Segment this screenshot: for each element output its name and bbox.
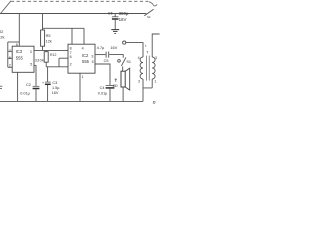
- wire R6 bottom lead: [45, 62, 47, 67]
- wire speaker to ground rail: [122, 87, 124, 101]
- svg-text:S2: S2: [147, 15, 151, 19]
- wire IC2 pins 6-2 bracket: [58, 58, 60, 67]
- wire IC1 pin6 stub: [8, 57, 12, 59]
- op-amp IC2 555 box: [68, 44, 95, 73]
- svg-text:0.01µ: 0.01µ: [98, 92, 108, 96]
- svg-text:C5: C5: [108, 11, 114, 16]
- wire dashed top border: [11, 0, 148, 2]
- op-amp IC1 555 box: [12, 46, 34, 72]
- svg-text:C5: C5: [104, 59, 109, 63]
- wire supply branch horizontal y28: [43, 27, 85, 29]
- switch S2 lever: [144, 9, 153, 15]
- wire IC1 left branch horizontal: [8, 41, 19, 43]
- capacitor C4 0.01u: [106, 85, 115, 87]
- svg-text:1: 1: [154, 79, 156, 83]
- wire R5 bottom lead: [42, 46, 44, 50]
- svg-text:1.5µ: 1.5µ: [52, 86, 60, 90]
- svg-text:5: 5: [92, 60, 94, 64]
- svg-text:0.01µ: 0.01µ: [20, 92, 30, 96]
- wire node to IC2 pin2: [46, 66, 68, 68]
- svg-text:5: 5: [30, 62, 32, 66]
- transformer T1 left winding: [140, 57, 143, 79]
- svg-text:330k: 330k: [35, 58, 44, 62]
- transformer T1 right winding: [152, 57, 155, 79]
- svg-text:8: 8: [16, 43, 18, 47]
- wire top-left diagonal: [1, 1, 12, 14]
- wire IC1 left bracket vertical: [7, 42, 9, 67]
- svg-text:IC2: IC2: [82, 53, 89, 58]
- svg-text:C4: C4: [100, 86, 105, 90]
- speaker LS 8ohm: [121, 71, 125, 87]
- wire transformer bottom U: [143, 79, 152, 101]
- svg-text:R2: R2: [0, 29, 4, 34]
- svg-text:300µ: 300µ: [119, 11, 129, 16]
- ground symbol: [111, 29, 119, 31]
- wire terminal to transformer primary: [126, 43, 143, 57]
- capacitor C6 4.7u 16V: [105, 52, 107, 58]
- wire IC1 pin7 stub: [8, 50, 12, 52]
- switch S1 lever: [121, 57, 126, 66]
- node terminal circle: [123, 41, 126, 44]
- svg-text:12k: 12k: [46, 40, 52, 44]
- svg-text:8: 8: [70, 46, 72, 50]
- wire V+ rail: [0, 13, 146, 15]
- svg-text:555: 555: [82, 59, 90, 64]
- svg-text:4: 4: [138, 56, 140, 60]
- svg-text:1: 1: [82, 75, 84, 79]
- capacitor C2 0.01u: [33, 85, 40, 87]
- svg-text:4: 4: [82, 46, 84, 50]
- svg-text:C3: C3: [52, 81, 57, 85]
- svg-text:3: 3: [91, 55, 93, 59]
- wire right edge feed to transformer: [152, 34, 159, 57]
- svg-text:S1: S1: [126, 60, 131, 64]
- resistor R6 vertical: [44, 52, 48, 63]
- wire IC2 pin6 stub: [59, 57, 68, 59]
- capacitor C3 1.5u 16V: [47, 67, 49, 82]
- svg-text:22k: 22k: [0, 35, 4, 40]
- svg-text:2: 2: [70, 63, 72, 67]
- svg-text:C2: C2: [26, 83, 31, 87]
- wire IC2 pin4 stub: [83, 28, 85, 44]
- svg-text:+: +: [42, 81, 44, 85]
- svg-text:8Ω: 8Ω: [113, 84, 118, 88]
- capacitor C5 300u 16V supply: [114, 14, 116, 17]
- svg-text:T: T: [146, 51, 149, 55]
- wire IC2 pin1 to ground rail: [79, 73, 81, 101]
- wire IC1 pin2 stub: [8, 66, 12, 68]
- svg-text:2: 2: [9, 64, 11, 68]
- wire IC1 pin8 stub: [18, 14, 20, 47]
- wire switch to speaker: [122, 66, 124, 71]
- wire rail drop to R5: [42, 14, 44, 31]
- svg-text:7: 7: [9, 49, 11, 53]
- wire IC2 pin8 stub: [71, 28, 73, 44]
- svg-text:16V: 16V: [110, 45, 117, 50]
- svg-text:3: 3: [155, 56, 157, 60]
- left edge capacitor fragment: [0, 85, 2, 87]
- svg-text:R5: R5: [46, 34, 51, 38]
- wire bottom rail: [0, 100, 143, 102]
- svg-text:16V: 16V: [119, 17, 127, 22]
- switch S1 contact circle: [118, 60, 121, 63]
- wire IC2 pin3 output: [95, 54, 106, 56]
- resistor R5 12k: [41, 30, 45, 46]
- svg-text:6: 6: [70, 55, 72, 59]
- wire IC1 pin3 to IC2 pin7: [34, 49, 68, 51]
- wire IC1 pin5 stub: [34, 66, 36, 86]
- svg-text:t: t: [145, 44, 146, 48]
- svg-text:IC3: IC3: [16, 49, 23, 54]
- svg-text:R12: R12: [50, 53, 56, 57]
- transformer core lines: [146, 56, 148, 81]
- svg-text:3: 3: [30, 50, 32, 54]
- svg-text:n: n: [153, 100, 156, 106]
- svg-text:3: 3: [138, 79, 140, 83]
- svg-text:6: 6: [9, 56, 11, 60]
- wire dashed border right hook: [149, 2, 158, 6]
- svg-text:4.7µ: 4.7µ: [97, 45, 105, 50]
- wire IC1 pin1 to ground rail: [17, 72, 19, 101]
- svg-text:16V: 16V: [52, 91, 59, 95]
- wire IC2 pin5: [95, 64, 110, 85]
- svg-text:555: 555: [16, 55, 24, 60]
